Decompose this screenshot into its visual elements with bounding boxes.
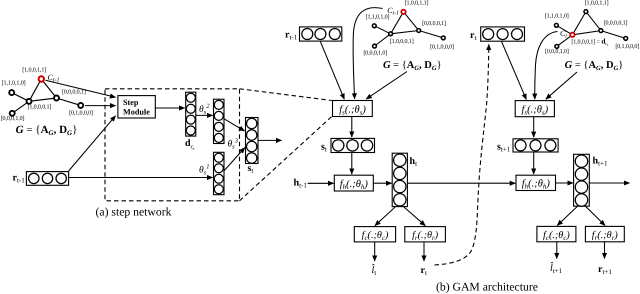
wire arrow far-right node to Step Module	[85, 105, 116, 107]
wire arrow f_h to h_t+1 column	[556, 182, 574, 184]
s_t+1 box	[513, 139, 558, 152]
node left	[555, 23, 559, 27]
r_t-1 input box	[26, 172, 68, 186]
svg-text:(a) step network: (a) step network	[96, 206, 172, 219]
f_c box	[354, 227, 395, 242]
svg-text:(b) GAM architecture: (b) GAM architecture	[436, 281, 538, 294]
wire arrow h_t+1 to f_c	[557, 206, 577, 225]
f_r box right	[585, 226, 624, 241]
wire arrow f_h to h_t column	[373, 182, 391, 184]
wire arrow f_c down	[374, 242, 376, 261]
wire curved arrow c_t to f_s	[535, 32, 558, 100]
wire arrow h_t to f_c	[375, 207, 396, 226]
svg-text:[1,1,0,1,0]: [1,1,0,1,0]	[366, 14, 390, 21]
wire edge bottomleft-center	[12, 101, 29, 113]
node top	[584, 10, 588, 14]
node far-right	[78, 103, 83, 108]
dashed link bottom to f_s	[240, 117, 332, 201]
node right	[417, 29, 421, 33]
svg-text:[0,1,0,0,0]: [0,1,0,0,0]	[430, 43, 454, 50]
wire edge top-right	[404, 12, 419, 31]
wire edge center-right	[391, 31, 419, 34]
wire edge bottomleft-center	[375, 34, 391, 46]
hidden column 1	[214, 152, 225, 194]
wire arrow f_c down right	[556, 242, 558, 259]
wire arrow f_r down	[423, 242, 425, 261]
f_c box right	[537, 226, 576, 241]
svg-text:[0,0,0,1,0]: [0,0,0,1,0]	[545, 48, 569, 55]
f_s box right	[515, 101, 554, 117]
wire edge top-center	[572, 12, 586, 35]
wire arrow r box to Step Module	[69, 116, 116, 171]
svg-text:Module: Module	[123, 107, 150, 116]
svg-text:[1,0,0,1,1]: [1,0,0,1,1]	[405, 0, 429, 7]
wire arrow G to f_s	[366, 72, 407, 100]
svg-text:[0,0,0,0,1]: [0,0,0,0,1]	[62, 89, 86, 96]
svg-text:[0,0,0,0,1]: [0,0,0,0,1]	[604, 20, 628, 27]
wire arrow f_s to s_t+1	[533, 117, 535, 138]
wire arrow Step Module to d column	[155, 107, 184, 109]
node left	[9, 90, 14, 95]
wire arrow h_t+1 to f_r	[586, 206, 606, 225]
wire edge top-right	[586, 12, 601, 31]
wire arrow s_t to f_h	[351, 153, 353, 175]
svg-text:[1,1,0,1,0]: [1,1,0,1,0]	[2, 80, 26, 87]
node bottom-left	[10, 111, 15, 116]
svg-text:[1,0,0,1,1]: [1,0,0,1,1]	[585, 0, 609, 7]
d_c column	[186, 92, 196, 136]
h_t+1 column	[574, 154, 590, 206]
wire arrow f_r down right	[604, 242, 606, 259]
Step Module box	[118, 96, 155, 118]
node left	[372, 24, 376, 28]
wire edge right-farright	[601, 31, 626, 39]
wire arrow h_t to f_r	[404, 207, 426, 226]
wire arrow column1 to s column	[224, 148, 245, 171]
svg-text:[0,1,0,0,0]: [0,1,0,0,0]	[69, 109, 93, 116]
wire edge center-right	[572, 31, 601, 35]
wire arrow f_s to s_t	[351, 117, 353, 138]
svg-text:[0,1,0,0,0]: [0,1,0,0,0]	[615, 43, 639, 50]
node far-right	[624, 37, 628, 41]
svg-text:Step: Step	[123, 98, 139, 107]
wire edge red-right	[41, 79, 56, 98]
wire edge red-center	[29, 79, 41, 101]
wire arrow h_t-1 to f_h	[308, 182, 334, 184]
r_t-1 box	[300, 27, 342, 41]
node right	[599, 29, 603, 33]
wire edge bottomleft-center	[557, 35, 573, 47]
svg-text:[0,0,0,0,1]: [0,0,0,0,1]	[422, 20, 446, 27]
wire arrow s_t+1 to f_h	[533, 152, 535, 174]
node c_t-1 current (red)	[39, 76, 44, 81]
svg-text:[1,1,0,1,0]: [1,1,0,1,0]	[545, 13, 569, 20]
wire edge left-center	[12, 93, 29, 102]
wire edge left-center	[556, 25, 572, 35]
node center	[389, 32, 393, 36]
node top red	[401, 10, 405, 14]
dashed box step network	[105, 89, 240, 201]
h_t column	[392, 153, 407, 206]
s_t box	[331, 138, 375, 152]
s_t output column	[246, 118, 259, 164]
r_t box	[481, 27, 525, 41]
f_h box	[334, 175, 373, 191]
node right	[54, 96, 59, 101]
wire edge left-center	[374, 26, 390, 34]
node bottom-left	[373, 44, 377, 48]
wire arrow column2 to s column	[224, 119, 244, 131]
svg-text:[0,0,0,1,0]: [0,0,0,1,0]	[1, 115, 25, 122]
dashed link top to f_s	[240, 89, 332, 101]
wire h_t+1 output	[589, 182, 629, 184]
svg-text:[1,0,0,0,1]: [1,0,0,0,1]	[27, 103, 51, 110]
svg-text:[1,0,0,0,1]: [1,0,0,0,1]	[390, 38, 414, 45]
wire arrow s column output	[258, 139, 282, 141]
wire curved arrow c_t-1 to f_s	[353, 8, 382, 99]
f_h box right	[516, 175, 556, 190]
hidden column 2	[214, 99, 225, 143]
wire arrow d column to hidden column 2	[196, 114, 213, 116]
dashed feedback r_t to r_t box	[435, 45, 489, 266]
node bottom-left	[555, 45, 559, 49]
wire arrow G to f_s	[546, 72, 577, 99]
wire arrow r_t box to f_s	[502, 41, 527, 99]
f_s box	[333, 101, 373, 117]
wire h_t to next f_h	[407, 182, 515, 184]
svg-text:[0,0,0,1,0]: [0,0,0,1,0]	[363, 50, 387, 57]
wire edge right-farright	[419, 31, 444, 38]
node center	[27, 99, 32, 104]
wire r box to theta1 column	[69, 177, 213, 179]
f_r box	[405, 227, 446, 242]
wire arrow r box to f_s	[320, 41, 344, 99]
node far-right	[441, 36, 445, 40]
svg-text:[1,0,0,1,1]: [1,0,0,1,1]	[22, 66, 46, 73]
wire edge center-right	[29, 98, 57, 101]
wire arrow red node to Step Module	[46, 80, 116, 97]
node center red	[570, 33, 574, 37]
wire edge right-farright	[57, 98, 81, 105]
wire edge top-center	[391, 12, 404, 34]
